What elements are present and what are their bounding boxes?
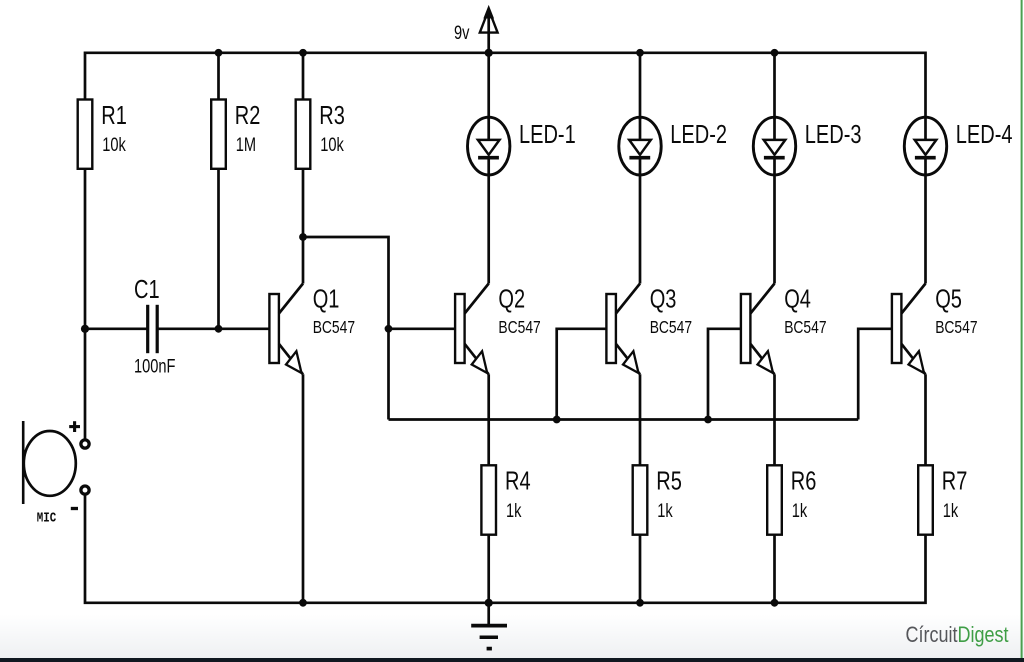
svg-text:1k: 1k [506,500,522,521]
svg-text:R5: R5 [656,466,682,495]
wire 9v column: rail to LED-1 [487,53,490,120]
wire R6 to ground rail [773,534,776,603]
wire riser bus to Q3 base [557,329,607,420]
LED LED-2 [619,116,727,176]
wire R2 top stub [217,53,220,101]
resistor R1 [78,100,127,169]
wire bottom ground rail with left/right risers [85,494,926,603]
MIC plus terminal [81,440,89,448]
svg-text:R2: R2 [235,100,261,129]
junction: bus to Q3 riser [553,416,561,424]
wire Q3 emitter through bus to R5 [639,374,642,466]
wire Q2 base from coupling node [389,327,456,330]
resistor R6 [767,465,816,534]
wire Q4 emitter through bus to R6 [773,374,776,466]
junction: 9v at top rail [485,49,493,57]
junction: R6 at ground rail [771,599,779,607]
svg-text:9v: 9v [454,22,470,43]
svg-text:Q2: Q2 [498,284,525,313]
CircuitDigest watermark [906,623,1009,647]
svg-text:LED-4: LED-4 [956,120,1013,149]
wire base line: left rail to C1 [85,327,147,330]
MIC minus terminal [81,486,89,494]
MIC minus sign [71,507,78,510]
junction: ground tap at rail [485,599,493,607]
svg-text:BC547: BC547 [935,318,977,338]
MIC plus sign [69,421,80,432]
wire riser bus to Q5 base [858,329,892,420]
junction: Q1 emitter at ground rail [299,599,307,607]
resistor R4 [481,465,530,534]
resistor R2 [211,100,260,169]
transistor Q5 (BC547 NPN) [892,284,978,375]
wire Q5 emitter to R7 [924,374,927,466]
svg-text:BC547: BC547 [650,318,692,338]
wire riser bus to Q4 base [708,329,741,420]
svg-text:MIC: MIC [37,511,56,526]
green right border [1021,0,1023,658]
junction: R5 at ground rail [636,599,644,607]
junction: R3 at top rail [299,49,307,57]
svg-text:R4: R4 [505,466,531,495]
svg-text:Q4: Q4 [784,284,811,313]
svg-text:LED-1: LED-1 [519,120,576,149]
junction: Q2 base tap [385,325,393,333]
svg-text:1k: 1k [657,500,673,521]
wire LED-4 to Q5 collector [924,174,927,284]
svg-text:BC547: BC547 [313,318,355,338]
junction: R2 at top rail [215,49,223,57]
wire R3 bottom through node to Q1 collector [302,168,305,284]
wire LED-3 to Q4 collector [773,174,776,284]
junction: LED-3 at top rail [771,49,779,57]
wire R2 bottom to base line [217,168,220,329]
svg-text:CírcuitDigest: CírcuitDigest [906,623,1009,647]
transistor Q4 (BC547 NPN) [741,284,827,375]
black bottom bar [0,658,1024,662]
wire R3 top stub [302,53,305,101]
svg-text:Q3: Q3 [650,284,677,313]
wire coupling: Q1 collector node right and down to bus [303,237,389,420]
svg-text:1k: 1k [943,500,959,521]
svg-text:BC547: BC547 [784,318,826,338]
transistor Q2 (BC547 NPN) [455,284,541,375]
svg-text:R7: R7 [942,466,968,495]
svg-text:R1: R1 [101,100,127,129]
power symbol 9v [454,7,498,53]
wire top power rail with left/right drops [85,53,926,119]
resistor R5 [633,465,682,534]
resistor R7 [918,465,967,534]
resistor R3 [296,100,345,169]
wire R5 to ground rail [639,534,642,603]
ground symbol [471,603,507,649]
LED LED-4 [904,116,1012,176]
svg-text:10k: 10k [320,134,344,155]
svg-text:10k: 10k [102,134,126,155]
junction: R2 at base line [215,325,223,333]
wire LED-2 to Q3 collector [639,174,642,284]
wire LED-1 to Q2 collector [487,174,490,284]
junction: R3 at Q1 collector node [299,233,307,241]
wire rail to LED-2 [639,53,642,120]
svg-text:C1: C1 [134,275,160,304]
capacitor C1 100nF [134,275,175,377]
svg-text:R3: R3 [319,100,345,129]
wire Q1 emitter down to ground rail [302,374,305,603]
wire base line: C1 to Q1 base [158,327,269,330]
svg-text:R6: R6 [791,466,817,495]
microphone MIC [23,421,76,526]
svg-text:1k: 1k [792,500,808,521]
svg-text:100nF: 100nF [134,355,175,376]
wire R4 to ground rail [487,534,490,603]
svg-text:LED-3: LED-3 [805,120,862,149]
transistor Q3 (BC547 NPN) [606,284,692,375]
svg-text:BC547: BC547 [498,318,540,338]
wire bus along emitters [389,418,859,421]
wire rail to LED-3 [773,53,776,120]
LED LED-3 [753,116,861,176]
svg-text:Q5: Q5 [935,284,962,313]
junction: bus to Q4 riser [704,416,712,424]
junction: left rail at C1 line [81,325,89,333]
wire left rail R1 to MIC plus terminal [84,168,87,440]
transistor Q1 (BC547 NPN) [269,284,355,375]
LED LED-1 [468,116,576,176]
svg-text:1M: 1M [236,134,256,155]
junction: LED-2 at top rail [636,49,644,57]
wire Q2 emitter through bus to R4 [487,374,490,466]
svg-text:Q1: Q1 [313,284,340,313]
svg-text:LED-2: LED-2 [670,120,727,149]
